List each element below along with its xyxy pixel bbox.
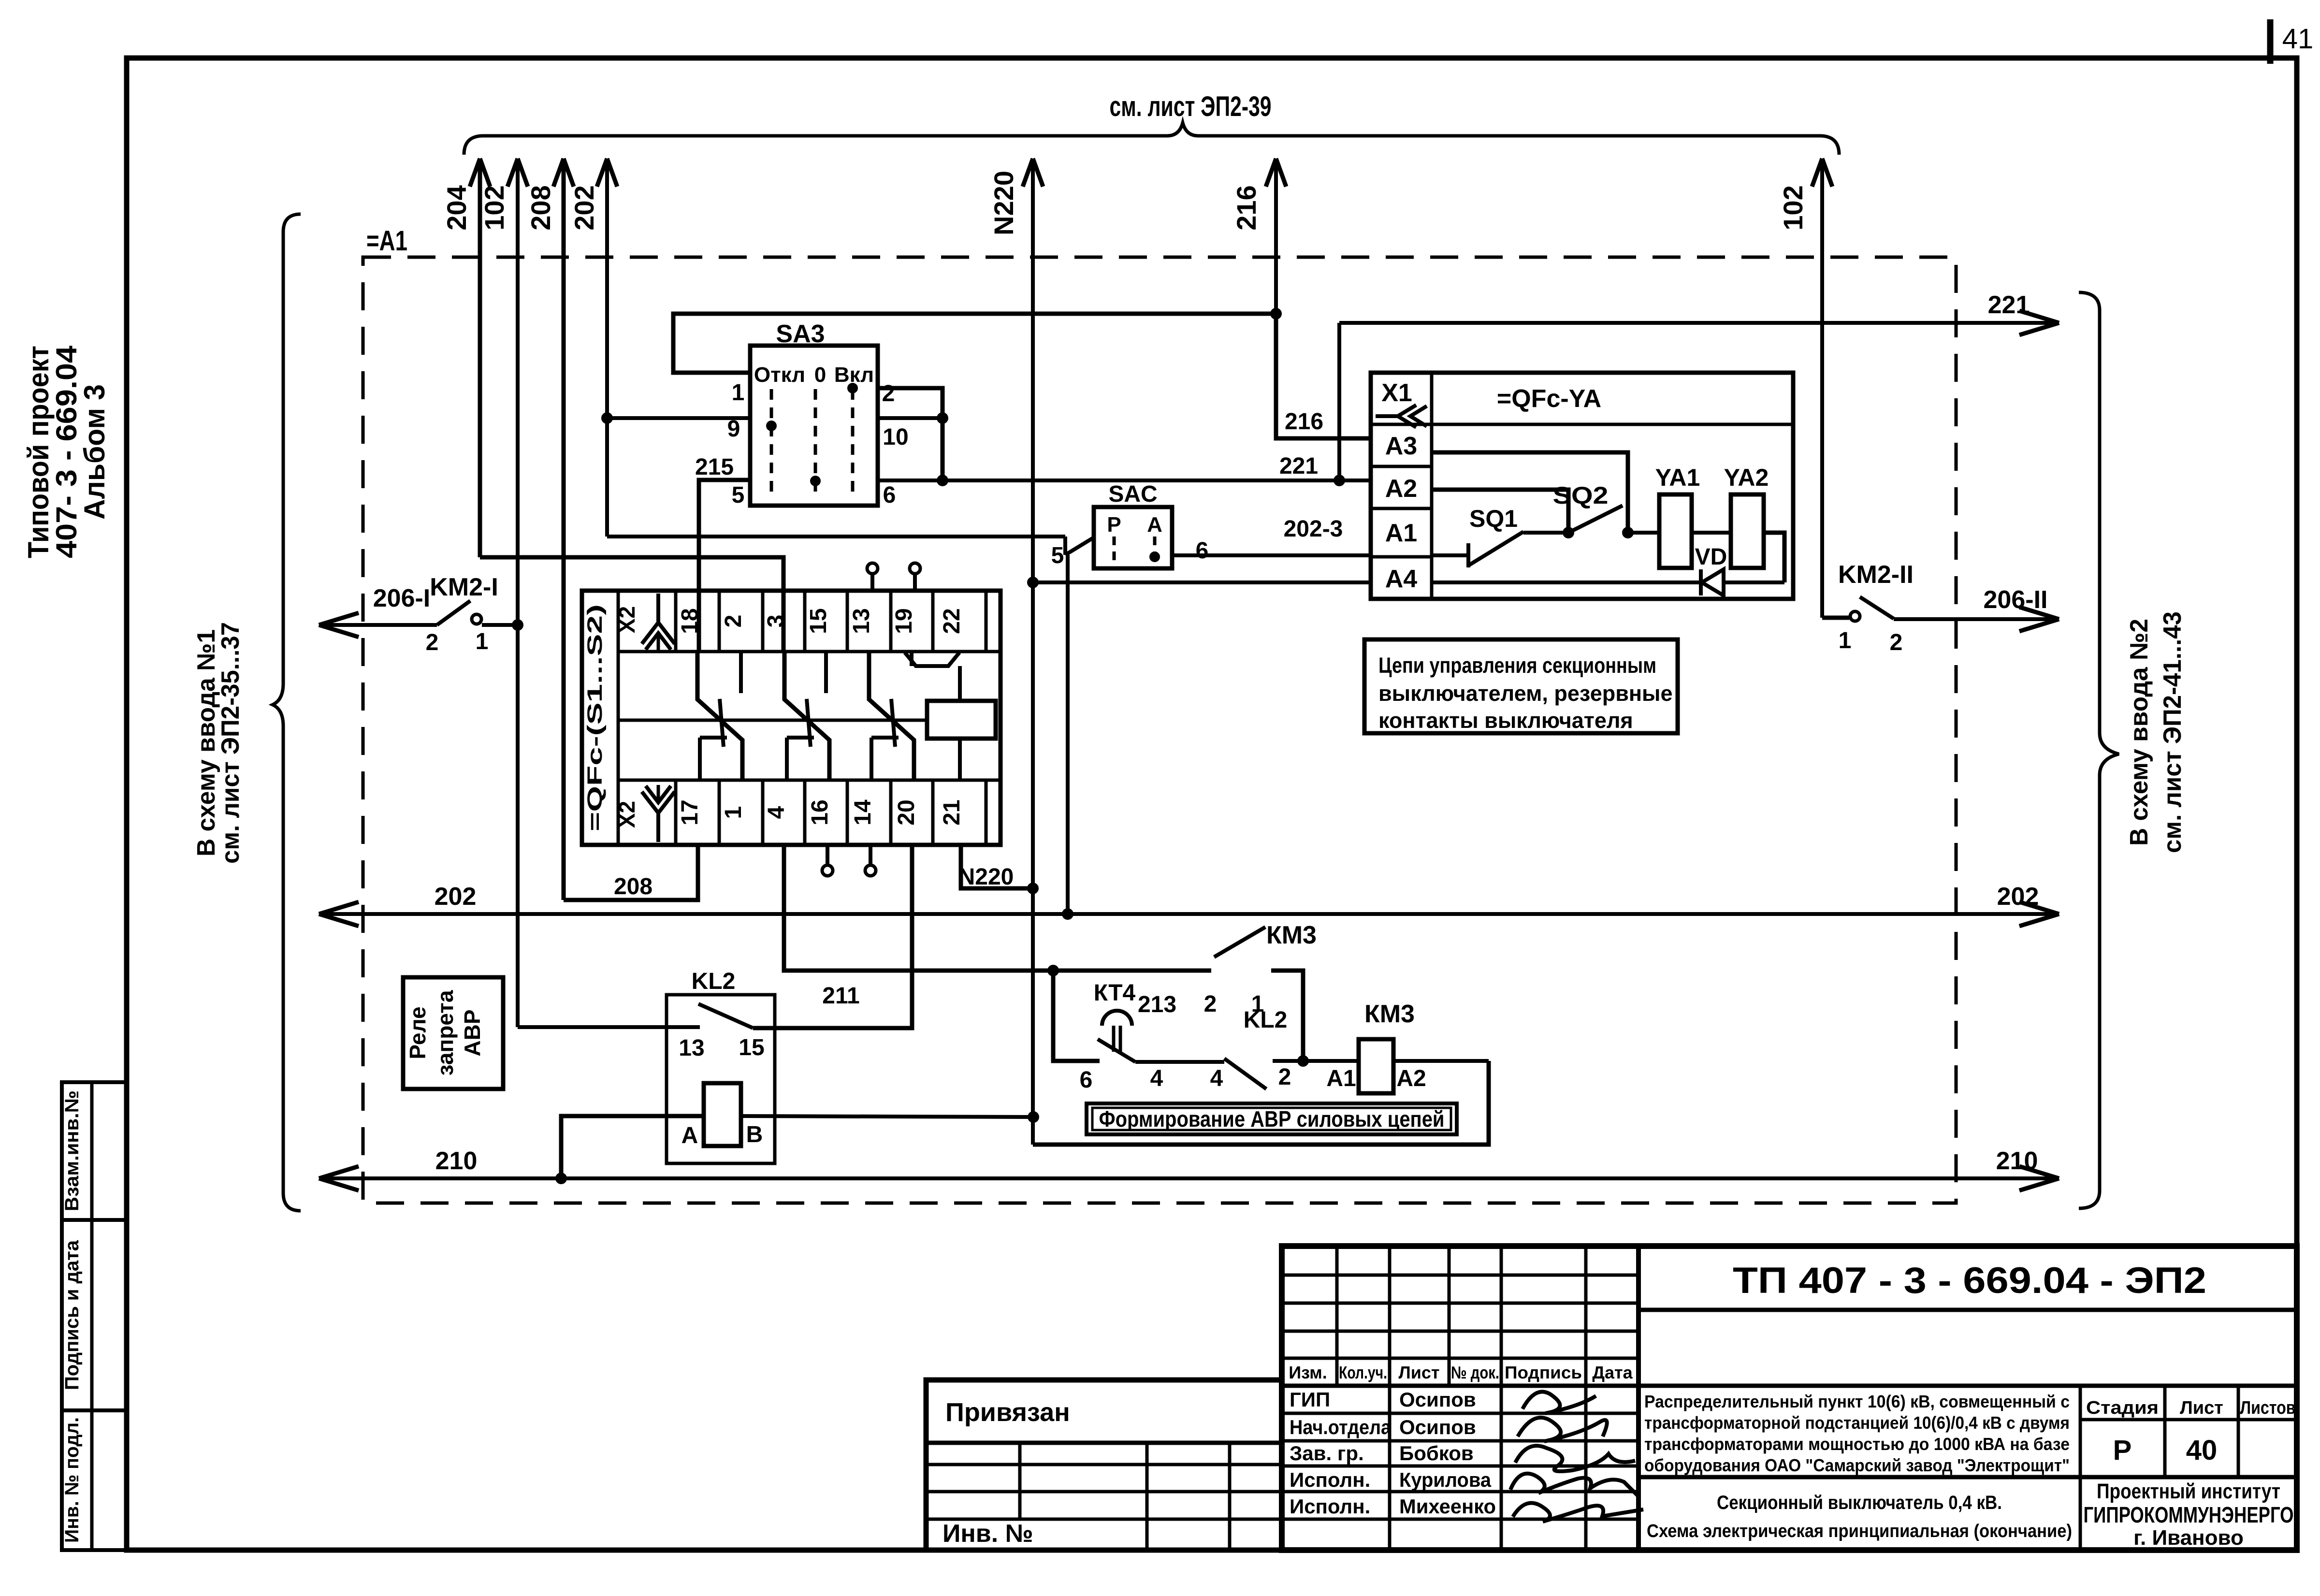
svg-text:4: 4	[764, 806, 789, 819]
svg-text:Бобков: Бобков	[1399, 1442, 1474, 1465]
svg-text:2: 2	[721, 615, 746, 628]
wire 221 branch up to right arrow	[1337, 323, 1341, 480]
title block upper-left mini table rows	[1282, 1274, 1638, 1277]
wire 206-I with left arrow	[323, 623, 437, 627]
svg-text:A3: A3	[1385, 432, 1417, 460]
svg-text:В схему ввода №2: В схему ввода №2	[2125, 619, 2153, 846]
svg-text:Альбом 3: Альбом 3	[78, 384, 111, 520]
svg-text:KL2: KL2	[1244, 1007, 1288, 1033]
net 204 vertical wire with up arrow	[478, 159, 482, 557]
svg-text:102: 102	[1778, 185, 1808, 230]
svg-text:15: 15	[806, 608, 831, 634]
svg-text:14: 14	[850, 799, 876, 826]
wire KT4 to KL2 contact	[1135, 1060, 1224, 1064]
stub under terminal 2	[739, 652, 743, 693]
svg-text:6: 6	[883, 482, 896, 508]
net 202 vertical wire with up arrow	[605, 159, 609, 537]
note box Формирование АВР силовых цепей	[1087, 1103, 1457, 1134]
svg-text:Откл: Откл	[754, 363, 805, 387]
terminal 19 stub up with socket circle	[913, 574, 917, 591]
svg-text:210: 210	[435, 1147, 478, 1175]
title block header row line	[1282, 1384, 2297, 1388]
svg-text:13: 13	[849, 608, 874, 634]
svg-text:Дата: Дата	[1592, 1363, 1633, 1382]
net 208 vertical wire with up arrow	[562, 159, 566, 900]
svg-text:трансформаторной подстанцией 1: трансформаторной подстанцией 10(6)/0,4 к…	[1644, 1413, 2070, 1433]
title block main outer box	[1282, 1246, 2297, 1550]
terminal block top row bottom edge	[618, 650, 1000, 653]
svg-text:216: 216	[1231, 185, 1261, 230]
svg-text:2: 2	[1890, 630, 1903, 655]
wire KL2 coil A to 210 rail	[561, 1116, 704, 1178]
net N220 vertical wire with up arrow	[1031, 159, 1035, 1145]
right brace В схему ввода №2	[2079, 292, 2119, 1208]
dashed enclosure =A1	[363, 257, 1956, 1203]
svg-text:102: 102	[479, 185, 509, 230]
svg-text:Стадия: Стадия	[2086, 1398, 2159, 1418]
svg-text:Реле: Реле	[405, 1006, 430, 1059]
wire 216 branch down to X1:A3	[1276, 314, 1371, 438]
svg-text:204: 204	[441, 185, 472, 230]
breaker aux contact group S1	[697, 652, 742, 780]
svg-text:Осипов: Осипов	[1399, 1416, 1476, 1438]
wire 202-3 from SAC to X1:A1	[1172, 553, 1371, 557]
wire X1:A3 internal	[1432, 452, 1628, 533]
svg-text:SA3: SA3	[776, 320, 825, 348]
wire 202 horizontal rail with arrows both ends	[323, 912, 2055, 916]
attribute strip inner divider	[90, 1082, 94, 1550]
KT4 blade	[1098, 1039, 1135, 1062]
svg-text:1: 1	[721, 806, 746, 819]
stub under terminal 15	[824, 652, 828, 693]
svg-text:Подпись: Подпись	[1505, 1363, 1582, 1382]
switch SA3 box	[750, 346, 878, 506]
left brace В схему ввода №1	[273, 214, 301, 1211]
signature scribbles	[1522, 1392, 1596, 1413]
wire KM3 coil A2 to N220 return	[1393, 1059, 1489, 1063]
svg-text:Подпись и дата: Подпись и дата	[61, 1240, 83, 1390]
wire N220 return loop	[1033, 1061, 1489, 1145]
svg-text:X1: X1	[1381, 379, 1412, 407]
svg-text:оборудования ОАО "Самарский за: оборудования ОАО "Самарский завод "Элект…	[1644, 1455, 2070, 1475]
terminal block label column divider	[617, 591, 620, 845]
svg-text:Инв. № подл.: Инв. № подл.	[61, 1417, 83, 1543]
svg-text:VD: VD	[1695, 544, 1727, 570]
svg-text:202-3: 202-3	[1284, 516, 1343, 542]
svg-text:2: 2	[1278, 1064, 1291, 1090]
wire 221 from SA3 pin6 to X1:A2	[942, 479, 1371, 482]
X1 block header divider	[1371, 423, 1793, 426]
svg-text:Изм.: Изм.	[1289, 1363, 1327, 1382]
svg-text:YA2: YA2	[1724, 464, 1769, 491]
svg-text:206-I: 206-I	[373, 584, 431, 612]
svg-text:Листов: Листов	[2240, 1398, 2296, 1418]
svg-text:22: 22	[939, 608, 965, 634]
wire KM3 contact output down to chain	[1271, 971, 1303, 1061]
svg-text:221: 221	[1279, 453, 1318, 479]
wire 215 from SA3 pin5 to terminal 18	[699, 480, 750, 652]
svg-text:1: 1	[476, 629, 489, 654]
svg-text:Исполн.: Исполн.	[1290, 1495, 1370, 1518]
wire N220 branch to X1:A4	[1033, 580, 1371, 584]
svg-text:41: 41	[2282, 23, 2314, 55]
svg-text:SQ1: SQ1	[1469, 505, 1518, 532]
svg-text:Исполн.: Исполн.	[1290, 1468, 1370, 1491]
svg-text:2: 2	[1204, 991, 1217, 1017]
coil YA2	[1731, 494, 1764, 568]
SAC contact dot	[1149, 551, 1160, 562]
svg-text:202: 202	[1997, 883, 2039, 911]
wire KL2 coil B to N220 net	[741, 1116, 1033, 1117]
terminal 16 stub with socket circle	[826, 845, 829, 865]
wire from 102 net to KL2 contact 13	[518, 1025, 700, 1029]
svg-text:трансформаторами мощностью до: трансформаторами мощностью до 1000 кВА н…	[1644, 1434, 2070, 1454]
SAC dashed position lines	[1113, 537, 1116, 561]
svg-text:Схема электрическая принципиал: Схема электрическая принципиальная (окон…	[1647, 1521, 2072, 1541]
contact KM2-II	[1822, 616, 1849, 620]
svg-text:215: 215	[695, 454, 734, 480]
svg-text:контакты выключателя: контакты выключателя	[1378, 708, 1633, 733]
net 102 vertical wire with up arrow	[516, 159, 520, 1027]
svg-text:16: 16	[807, 799, 833, 825]
svg-text:4: 4	[1150, 1066, 1163, 1091]
wire 202 branch to SAC	[607, 535, 1065, 538]
terminal 13 stub up with socket circle	[870, 574, 874, 591]
svg-text:KL2: KL2	[692, 969, 736, 994]
svg-text:2: 2	[882, 381, 895, 406]
terminal block bottom row top edge	[618, 779, 1000, 782]
note box Цепи управления секционным выключателем	[1364, 639, 1678, 733]
svg-text:2: 2	[426, 630, 439, 655]
svg-text:19: 19	[891, 608, 917, 634]
svg-text:ГИПРОКОММУНЭНЕРГО: ГИПРОКОММУНЭНЕРГО	[2084, 1502, 2294, 1527]
title block main divider	[1636, 1246, 1641, 1550]
svg-text:10: 10	[883, 424, 908, 450]
svg-text:X2: X2	[614, 606, 639, 633]
svg-text:Взам.инв.№: Взам.инв.№	[61, 1090, 83, 1211]
svg-text:KM2-II: KM2-II	[1838, 561, 1914, 589]
X1 left column divider	[1430, 373, 1434, 599]
contact SQ1	[1432, 553, 1468, 557]
svg-text:13: 13	[679, 1035, 704, 1061]
SAC blade	[1065, 537, 1094, 555]
attribute strip box Подпись и дата	[62, 1220, 127, 1410]
contact KM3 blade	[1214, 927, 1265, 957]
relay KL2 box	[667, 995, 775, 1163]
svg-text:YA1: YA1	[1655, 464, 1700, 491]
wire KT4 branch down	[1053, 971, 1100, 1061]
svg-text:=A1: =A1	[366, 225, 407, 257]
wire SA3 pin9 to 202 net	[607, 416, 750, 420]
svg-text:см. лист ЭП2-35...37: см. лист ЭП2-35...37	[217, 622, 245, 864]
svg-text:21: 21	[939, 799, 965, 825]
svg-text:см. лист ЭП2-41...43: см. лист ЭП2-41...43	[2159, 611, 2187, 853]
page number 41 tick	[2267, 19, 2274, 64]
svg-text:№ док.: № док.	[1451, 1363, 1499, 1382]
X1 row dividers	[1371, 465, 1432, 468]
wire 210 horizontal rail with arrows both ends	[323, 1176, 2055, 1180]
svg-text:4: 4	[1210, 1066, 1223, 1091]
svg-text:A1: A1	[1385, 519, 1417, 547]
svg-text:Курилова: Курилова	[1399, 1468, 1492, 1491]
svg-text:выключателем, резервные: выключателем, резервные	[1378, 681, 1673, 706]
svg-text:Нач.отдела: Нач.отдела	[1290, 1416, 1392, 1438]
svg-text:18: 18	[677, 608, 703, 634]
wire N220 from terminal 21	[961, 845, 1033, 888]
title block signature rows	[1282, 1412, 1638, 1415]
svg-text:208: 208	[525, 185, 556, 230]
terminal 14 stub with socket circle	[869, 845, 872, 865]
wire SQ junction to YA1	[1628, 531, 1659, 535]
wire KL2 chain to KM3 coil	[1273, 1059, 1359, 1063]
svg-text:Осипов: Осипов	[1399, 1388, 1476, 1411]
aux device rectangle in terminal block	[958, 666, 962, 701]
terminal block middle bus line	[618, 719, 927, 722]
svg-text:221: 221	[1988, 291, 2030, 319]
svg-text:N220: N220	[958, 864, 1014, 890]
switch SAC box	[1094, 507, 1172, 568]
svg-text:Формирование АВР силовых цепей: Формирование АВР силовых цепей	[1099, 1106, 1445, 1132]
wire 206-II with right arrow	[1894, 617, 2055, 621]
attribute strip box Инв. № подл.	[62, 1410, 127, 1550]
net 216 vertical wire with up arrow	[1274, 159, 1278, 314]
X1 connector arrow symbol	[1376, 414, 1397, 418]
contact KL2 (chain) blade	[1224, 1059, 1266, 1089]
wire 204 branch into terminal 3	[480, 557, 783, 652]
breaker aux contact group S3	[869, 652, 914, 780]
wire YA1 to YA2	[1692, 531, 1731, 535]
svg-text:г. Иваново: г. Иваново	[2133, 1526, 2244, 1550]
svg-text:Зав. гр.: Зав. гр.	[1290, 1442, 1364, 1465]
note box Реле запрета АВР	[403, 977, 503, 1089]
SA3 position dashed lines	[770, 389, 773, 499]
terminal block =QFc-(S1...S2) outer box	[582, 591, 1000, 845]
wire SA3 pin2/10/6 right loop	[878, 388, 942, 480]
svg-text:A: A	[681, 1123, 698, 1148]
top brace см. лист ЭП2-39	[464, 123, 1839, 155]
svg-text:15: 15	[739, 1035, 764, 1060]
KL2 contact blade	[698, 1004, 753, 1028]
svg-text:Распределительный пункт 10(6): Распределительный пункт 10(6) кВ, совмещ…	[1644, 1392, 2070, 1411]
svg-text:40: 40	[2186, 1435, 2218, 1466]
svg-text:Привязан: Привязан	[945, 1398, 1070, 1427]
svg-text:см. лист ЭП2-39: см. лист ЭП2-39	[1110, 91, 1272, 122]
svg-text:1: 1	[732, 380, 745, 406]
svg-text:Инв. №: Инв. №	[942, 1520, 1033, 1548]
svg-text:216: 216	[1285, 409, 1323, 435]
svg-text:407- 3 - 669.04: 407- 3 - 669.04	[50, 345, 83, 558]
svg-text:B: B	[746, 1122, 763, 1147]
svg-text:5: 5	[732, 482, 745, 508]
svg-text:КТ4: КТ4	[1094, 980, 1136, 1006]
svg-text:202: 202	[569, 185, 599, 230]
net 102-II vertical wire with up arrow	[1820, 159, 1824, 618]
svg-text:213: 213	[1138, 992, 1176, 1017]
svg-text:A1: A1	[1326, 1066, 1356, 1091]
breaker aux contact group S2	[784, 652, 829, 780]
svg-text:A2: A2	[1396, 1066, 1426, 1091]
svg-text:ГИП: ГИП	[1290, 1388, 1330, 1411]
svg-text:ТП 407 - 3 - 669.04 - ЭП2: ТП 407 - 3 - 669.04 - ЭП2	[1733, 1260, 2206, 1301]
stub under terminal 19 with bracket	[910, 652, 913, 666]
svg-text:211: 211	[822, 983, 859, 1009]
svg-text:АВР: АВР	[460, 1009, 485, 1056]
svg-text:SAC: SAC	[1108, 481, 1157, 507]
coil KM3	[1359, 1039, 1393, 1093]
svg-text:А: А	[1147, 513, 1162, 537]
svg-text:Кол.уч.: Кол.уч.	[1339, 1363, 1387, 1382]
svg-text:Секционный выключатель 0,4 кВ.: Секционный выключатель 0,4 кВ.	[1717, 1492, 2002, 1513]
svg-text:Михеенко: Михеенко	[1399, 1495, 1496, 1518]
svg-text:17: 17	[677, 799, 703, 825]
junction dot 213/KT4 branch	[1047, 965, 1059, 976]
terminal block cell dividers	[674, 591, 678, 652]
svg-text:X2: X2	[614, 801, 639, 828]
attribute strip box Взам.инв.№	[62, 1082, 127, 1220]
title block left columns	[1335, 1246, 1339, 1386]
svg-text:запрета: запрета	[433, 990, 458, 1075]
svg-text:Цепи управления секционным: Цепи управления секционным	[1378, 653, 1656, 678]
svg-text:206-II: 206-II	[1984, 586, 2048, 614]
svg-text:КМ3: КМ3	[1266, 921, 1317, 949]
wire 221 to right arrow	[1339, 321, 2055, 325]
SAC vertical from pin5 down to 202 rail	[1066, 555, 1070, 914]
svg-text:Типовой проект: Типовой проект	[22, 346, 55, 558]
coil YA1	[1659, 494, 1692, 568]
svg-text:208: 208	[614, 874, 652, 900]
svg-text:5: 5	[1051, 543, 1064, 568]
coil KL2	[704, 1083, 741, 1146]
time relay contact KT4 bell	[1102, 1011, 1132, 1026]
wire 213 from terminal 4 to KM3 contact	[784, 845, 1211, 971]
wire SA3 pin1 loop to 216 junction	[673, 314, 1276, 373]
svg-text:KM2-I: KM2-I	[430, 573, 498, 601]
title block document number underline	[1638, 1308, 2297, 1312]
svg-text:=QFc-YA: =QFc-YA	[1497, 385, 1601, 413]
svg-text:N220: N220	[988, 171, 1019, 235]
svg-text:202: 202	[435, 883, 477, 911]
svg-text:Лист: Лист	[2180, 1398, 2223, 1418]
wire X1:A4 internal with diode	[1432, 580, 1701, 584]
svg-text:=QFc-(S1...S2): =QFc-(S1...S2)	[583, 604, 607, 831]
SA3 contact dots	[847, 383, 858, 393]
wire 208 loop from terminal 17	[564, 845, 698, 900]
wire 211 from terminal 20 to KL2 contact	[753, 845, 912, 1028]
diode VD	[1699, 569, 1703, 595]
wire YA2 to A4 drop	[1764, 533, 1784, 582]
svg-text:SQ2: SQ2	[1553, 482, 1609, 509]
svg-text:20: 20	[894, 799, 919, 825]
SAC pivot drop	[1063, 537, 1067, 555]
svg-text:Проектный институт: Проектный институт	[2097, 1480, 2280, 1503]
svg-text:A2: A2	[1385, 475, 1417, 503]
title block Привязан table	[926, 1380, 1282, 1550]
svg-text:0: 0	[814, 363, 826, 387]
svg-text:Лист: Лист	[1398, 1363, 1439, 1382]
svg-text:6: 6	[1196, 538, 1209, 564]
wire X1:A2 internal	[1432, 490, 1568, 533]
svg-text:210: 210	[1996, 1147, 2038, 1175]
svg-text:Р: Р	[1107, 513, 1121, 537]
svg-text:6: 6	[1080, 1067, 1093, 1093]
connector X1 / breaker aux block =QFc-YA outer box	[1371, 373, 1793, 599]
svg-text:1: 1	[1839, 628, 1852, 653]
svg-text:A4: A4	[1385, 565, 1418, 593]
title block stage columns	[2079, 1386, 2082, 1550]
svg-text:Р: Р	[2113, 1435, 2132, 1466]
contact KM2-I	[437, 601, 470, 625]
contact SQ2 blade	[1568, 506, 1623, 533]
svg-text:КМ3: КМ3	[1364, 1000, 1415, 1028]
